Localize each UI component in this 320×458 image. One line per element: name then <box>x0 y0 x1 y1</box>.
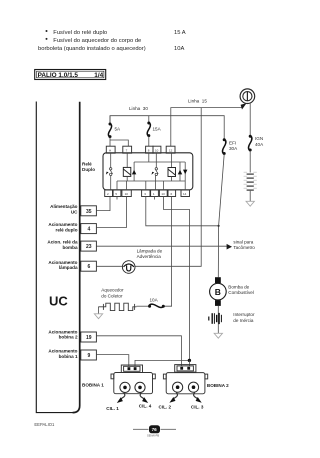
fuse 5A <box>108 116 121 138</box>
svg-text:UC: UC <box>49 294 68 309</box>
UC pin 35 <box>81 206 97 216</box>
wire 5A fuse to relay pins (bridge) <box>109 137 111 146</box>
svg-text:35: 35 <box>86 209 92 215</box>
svg-text:1/4: 1/4 <box>94 72 103 79</box>
relay internal: diode 3 <box>183 162 187 190</box>
svg-text:relé duplo: relé duplo <box>56 227 78 232</box>
wire ignition to IGN fuse <box>249 104 251 136</box>
UC pin 23 <box>81 241 97 251</box>
svg-text:Lâmpada de: Lâmpada de <box>137 248 163 253</box>
relay bottom pin 3 <box>122 190 131 197</box>
svg-text:Fusível do relé duplo: Fusível do relé duplo <box>53 30 107 36</box>
svg-text:BOBINA 2: BOBINA 2 <box>207 383 229 388</box>
relay internal: bottom rail <box>117 180 185 182</box>
svg-text:CIL. 3: CIL. 3 <box>191 404 204 409</box>
stub relay b2 <box>116 197 118 200</box>
label Acionamento bobina 2 <box>48 329 78 339</box>
svg-text:Fusível do aquecedor do corpo: Fusível do aquecedor do corpo de <box>53 38 141 44</box>
svg-text:sinal para: sinal para <box>233 239 253 244</box>
svg-text:Relé: Relé <box>82 162 92 167</box>
wire inertia to ground <box>217 326 219 333</box>
wire coil1 supply to junction <box>135 360 189 366</box>
label Lâmpada de Advertência <box>137 248 163 259</box>
svg-text:EFI: EFI <box>229 140 236 145</box>
relay internal: stem pin b4 <box>145 181 147 190</box>
ground (heater) <box>94 307 102 319</box>
svg-text:10A: 10A <box>150 297 159 302</box>
note bullet 1: Fusível do relé duplo <box>46 30 108 36</box>
wire junction to coil 2 connector <box>188 360 190 366</box>
ignition coil BOBINA 1 <box>111 365 155 394</box>
svg-text:9: 9 <box>88 353 91 359</box>
label Acion. relé da bomba <box>47 240 78 250</box>
fuse IGN 40A <box>249 135 265 152</box>
relay bottom pin 5 <box>151 190 159 197</box>
relay top pin 4 <box>153 146 161 153</box>
net Linha 30 <box>110 106 224 139</box>
svg-text:bobina 2: bobina 2 <box>59 335 78 340</box>
svg-text:10: 10 <box>125 192 129 196</box>
wire relay b7 to heater fuse <box>164 197 172 307</box>
wire EFI fuse to fuel pump <box>218 154 224 277</box>
svg-text:13: 13 <box>161 192 165 196</box>
arrow tachometer <box>227 244 232 250</box>
wire UC pin 9 to coil 1 <box>96 355 128 367</box>
note bullet 2: Fusível do aquecedor <box>38 38 146 52</box>
warning lamp <box>122 261 135 274</box>
svg-text:UC: UC <box>71 209 78 214</box>
svg-text:bomba: bomba <box>62 245 78 250</box>
ignition coil BOBINA 2 <box>163 365 207 394</box>
label Aquecedor do Coletor <box>101 288 124 299</box>
relay internal: diode 2 <box>178 162 182 181</box>
svg-text:4: 4 <box>88 227 91 233</box>
svg-text:Linha 15: Linha 15 <box>188 98 207 103</box>
relay bottom pin 7 <box>168 190 176 197</box>
svg-text:CIL. 4: CIL. 4 <box>139 404 152 409</box>
ECU box UC <box>36 102 79 413</box>
relay internal: stem pin b6 <box>162 181 164 190</box>
svg-text:Bomba de: Bomba de <box>228 284 249 289</box>
fuse 10A (heater) <box>136 297 164 307</box>
label Acionamento relé duplo <box>48 222 77 232</box>
svg-text:CIL. 1: CIL. 1 <box>106 406 119 411</box>
label Alimentação UC <box>50 204 78 214</box>
ignition switch <box>240 89 255 104</box>
svg-text:borboleta (quando instalado o: borboleta (quando instalado o aquecedor) <box>38 46 146 52</box>
svg-text:Combustível: Combustível <box>228 290 254 295</box>
svg-text:10: 10 <box>155 148 159 152</box>
UC pin 4 <box>81 224 97 234</box>
relay top pin 5 <box>166 146 175 153</box>
wire IGN fuse to battery <box>249 151 251 173</box>
wire relay b1 to UC pin 35 <box>96 197 110 211</box>
svg-text:14: 14 <box>183 192 187 196</box>
junction pump node <box>218 225 220 227</box>
svg-text:Duplo: Duplo <box>82 167 95 172</box>
svg-text:23: 23 <box>86 244 92 250</box>
relay internal: contact 1 <box>106 153 113 190</box>
battery <box>244 172 257 190</box>
svg-text:Aquecedor: Aquecedor <box>101 288 124 293</box>
svg-text:SENAI-PB: SENAI-PB <box>147 434 159 438</box>
relay internal: coil 2 <box>168 153 176 181</box>
UC pin 19 <box>81 332 97 342</box>
wire battery to ground <box>249 191 251 202</box>
svg-text:lâmpada: lâmpada <box>59 265 78 270</box>
svg-text:B: B <box>215 287 221 297</box>
arrow to ignition switch <box>241 103 247 109</box>
ground (inertia switch) <box>214 333 222 338</box>
junction coils supply <box>188 359 191 362</box>
spark lead CIL. 4 <box>139 393 152 409</box>
svg-text:12: 12 <box>169 148 173 152</box>
svg-text:H: H <box>109 148 111 152</box>
relay internal: stem pin b2 <box>116 181 118 190</box>
svg-text:IGN: IGN <box>255 136 263 141</box>
stub relay b5 <box>154 197 156 200</box>
svg-text:Linha 30: Linha 30 <box>129 106 148 111</box>
svg-text:5A: 5A <box>115 127 122 132</box>
heater resistor <box>98 303 136 310</box>
svg-text:15A: 15A <box>153 127 162 132</box>
fuse EFI 30A <box>223 138 239 155</box>
svg-text:Advertência: Advertência <box>137 254 162 259</box>
relay internal: top rail <box>134 161 185 163</box>
UC pin 6 <box>81 261 97 271</box>
label Interruptor de Inércia <box>233 312 255 323</box>
svg-text:Interruptor: Interruptor <box>233 312 255 317</box>
wire relay b6 to coils supply <box>163 197 189 361</box>
svg-text:19: 19 <box>86 335 92 341</box>
wire 15A fuse to relay pin <box>148 136 150 146</box>
title block PALIO 1.0/1.5 1/4 <box>35 70 106 80</box>
svg-text:10A: 10A <box>174 46 184 52</box>
wire UC pin 23 to tachometer signal <box>96 245 226 247</box>
label Bomba de Combustível <box>228 284 254 295</box>
svg-text:40A: 40A <box>255 142 264 147</box>
label sinal para Tacômetro <box>233 239 255 250</box>
relay bottom pin 2 <box>113 190 121 197</box>
net Linha 15 <box>171 98 243 146</box>
svg-text:PALIO 1.0/1.5: PALIO 1.0/1.5 <box>38 72 79 79</box>
fuse 15A <box>147 116 161 137</box>
relay top pin 3 <box>146 146 153 153</box>
svg-text:30A: 30A <box>229 146 238 151</box>
svg-text:EEPALIO1: EEPALIO1 <box>34 422 55 427</box>
spark lead CIL. 2 <box>159 392 178 409</box>
label Relé Duplo <box>82 162 95 173</box>
svg-text:15 A: 15 A <box>174 30 186 36</box>
relay bottom pin 1 <box>105 190 113 197</box>
relay internal: feed stem pin3 <box>148 153 150 162</box>
svg-text:CIL. 2: CIL. 2 <box>159 404 172 409</box>
wire pump to inertia switch <box>217 306 219 326</box>
double relay body <box>103 153 193 190</box>
relay internal: contact 2 <box>152 153 159 190</box>
fuel pump <box>210 277 227 306</box>
spark lead CIL. 1 <box>106 393 125 411</box>
relay bottom pin 4 <box>142 190 150 197</box>
inertia switch <box>209 313 222 324</box>
relay internal: diode 1 <box>132 162 136 181</box>
svg-text:76: 76 <box>152 427 158 432</box>
label Acionamento bobina 1 <box>48 349 78 359</box>
relay bottom pin 14 <box>181 190 190 197</box>
wire relay b3 to UC pin 4 <box>96 197 126 228</box>
svg-text:bobina 1: bobina 1 <box>59 354 78 359</box>
svg-text:6: 6 <box>88 264 91 270</box>
relay internal: stem pin b3 <box>126 181 128 190</box>
wire Linha 15 drop to lamp line <box>96 108 201 267</box>
footer page badge 76 <box>133 425 176 437</box>
UC pin 9 <box>81 350 97 360</box>
relay top pin 2 <box>123 146 132 153</box>
svg-text:do Coletor: do Coletor <box>101 293 123 298</box>
relay top pin 1 <box>106 146 115 153</box>
svg-text:Tacômetro: Tacômetro <box>233 245 255 250</box>
relay internal: coil 1 <box>123 153 131 181</box>
svg-text:BOBINA 1: BOBINA 1 <box>82 382 104 387</box>
wire UC pin 19 to coil 2 <box>96 336 181 366</box>
spark lead CIL. 3 <box>191 392 204 409</box>
relay bottom pin 6 <box>159 190 167 197</box>
ground (battery) <box>246 201 254 206</box>
label Acionamento lâmpada <box>48 260 78 270</box>
wire relay b4 to fuel pump node <box>146 197 219 226</box>
svg-text:de Inércia: de Inércia <box>233 318 254 323</box>
